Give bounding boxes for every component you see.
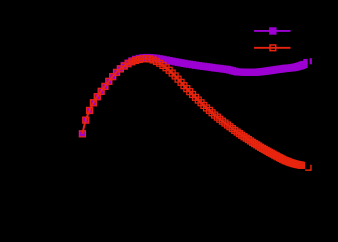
red series markers xyxy=(80,56,305,169)
legend purple entry xyxy=(254,27,290,34)
red final tick (partial marker: right+bottom edges) xyxy=(305,165,311,170)
purple series markers xyxy=(79,54,308,137)
purple series line xyxy=(82,58,307,134)
legend red entry xyxy=(254,45,290,51)
red series line xyxy=(82,59,304,166)
purple final tick (clipped last point) xyxy=(310,58,312,64)
